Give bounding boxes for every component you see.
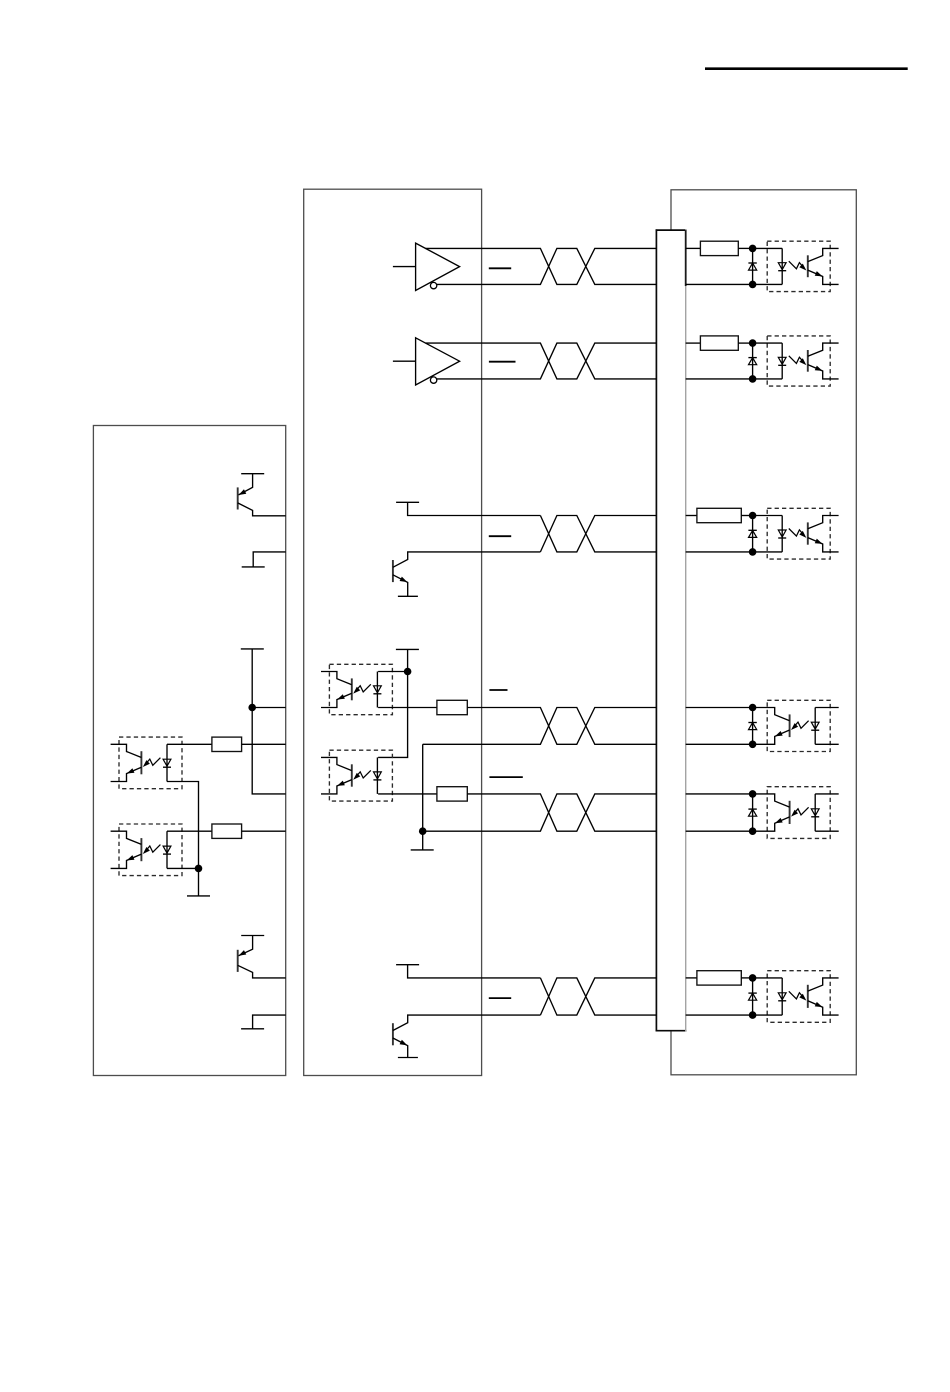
node left supply [248, 704, 256, 712]
signal name overbar row 6 [489, 997, 511, 999]
left external-device box [93, 426, 285, 1076]
optocoupler PC5 (right) [753, 787, 839, 839]
node left return [195, 865, 203, 873]
resistor R8 [212, 824, 242, 838]
transistor Q3 base line [392, 560, 394, 582]
transistor Q3 collector wire [393, 552, 541, 567]
wire row 1 - line (bar to node) [686, 283, 753, 285]
left row-3 return wire [253, 552, 286, 567]
middle ground bar [411, 849, 434, 851]
row 3 wire from terminal to + line [408, 502, 541, 515]
node middle supply [404, 668, 412, 676]
left supply terminal bar [241, 648, 264, 650]
clamp diode D4 [748, 708, 756, 745]
left Q1 emitter [237, 474, 252, 497]
wire row 5 - line (bar to node) [686, 830, 753, 832]
wire row 2 + line (bar to resistor) [686, 342, 701, 344]
optocoupler PC2 [753, 336, 839, 386]
driver U1 inverting output bubble [430, 282, 436, 288]
signal name overbar row 4 [489, 689, 507, 691]
node row 1 - [749, 281, 757, 289]
clamp diode D3 [748, 516, 756, 552]
twisted pair row 4 [423, 708, 657, 745]
middle controller box [304, 189, 482, 1075]
wire PC4 cathode to resistor [378, 707, 437, 709]
connector CN terminal bar [656, 229, 687, 1031]
signal name overbar row 2 [489, 361, 516, 363]
line driver U1 [416, 243, 460, 290]
wire node to ground [198, 868, 200, 896]
wire PC8 anode to resistor [167, 830, 212, 832]
resistor R6 [697, 971, 741, 985]
left row-3 terminal bar [242, 566, 265, 568]
node row 6 - [749, 1011, 757, 1019]
node row 1 + [749, 245, 757, 253]
wire PC8 cathode to node [167, 867, 199, 869]
transistor Q1 base line [237, 487, 239, 509]
resistor R4 (middle) [437, 700, 467, 714]
node row 3 + [749, 512, 757, 520]
wire supply to node [407, 649, 409, 671]
row 3 pull-up terminal bar [396, 501, 419, 503]
wire row 4 - line (bar to node) [686, 743, 753, 745]
wire PC4 anode to supply node [378, 671, 408, 673]
node row 6 + [749, 974, 757, 982]
resistor R7 [212, 737, 242, 751]
wire row 1 + line (bar to resistor) [686, 247, 701, 249]
driver U2 inverting output bubble [430, 377, 436, 383]
left Q1 supply terminal bar [241, 473, 264, 475]
twisted pair row 1 [425, 248, 656, 284]
left row-6 terminal bar [241, 1028, 264, 1030]
node row 5 + [749, 790, 757, 798]
row 6 wire from terminal to + line [408, 965, 541, 978]
transistor Q3 emitter [393, 575, 409, 597]
wire resistor to node row 1 [738, 247, 752, 249]
twisted pair row 5 [423, 794, 657, 831]
left Q2 emitter [237, 936, 252, 958]
right interface box [671, 190, 856, 1075]
transistor Q6 collector wire [393, 1015, 541, 1030]
node middle return [419, 827, 427, 835]
wire resistor R7 to box edge [242, 743, 286, 745]
resistor R3 [697, 508, 741, 522]
driver U2 input wire [393, 360, 416, 362]
header rule line [705, 67, 908, 70]
wire PC7 anode to resistor [167, 743, 212, 745]
optocoupler PC4 (right) [753, 700, 839, 751]
wire row 5 + line (bar to node) [686, 793, 753, 795]
wire row 6 - line (bar to node) [686, 1014, 753, 1016]
transistor Q6 emitter [393, 1038, 409, 1058]
left supply rail wire [252, 649, 286, 794]
optocoupler PC4 (middle) [321, 664, 392, 714]
row 6 emitter terminal bar [398, 1057, 418, 1059]
middle supply terminal bar [396, 648, 419, 650]
optocoupler PC7 (left) [111, 737, 182, 789]
wire PC5 cathode to resistor [378, 793, 437, 795]
node row 4 + [749, 704, 757, 712]
clamp diode D5 [748, 794, 756, 831]
resistor R5 (middle) [437, 787, 467, 801]
left ground bar [187, 895, 210, 897]
optocoupler PC6 [753, 971, 839, 1023]
left row-6 return wire [253, 1015, 286, 1029]
node row 2 - [749, 375, 757, 383]
wire row 4 + line (bar to node) [686, 707, 753, 709]
resistor R2 [700, 336, 738, 350]
wire row 3 - line (bar to node) [686, 551, 753, 553]
node row 4 - [749, 741, 757, 749]
row 6 pull-up terminal bar [396, 964, 419, 966]
node row 3 - [749, 548, 757, 556]
wire node down to PC5 anode [378, 672, 408, 758]
left Q1 collector wire [238, 503, 286, 516]
twisted pair row 2 [425, 343, 656, 379]
wire row 6 + line (bar to resistor) [686, 977, 697, 979]
optocoupler PC8 (left) [111, 824, 182, 876]
clamp diode D2 [748, 343, 756, 379]
transistor Q2 base line [237, 950, 239, 972]
left Q2 supply terminal bar [241, 935, 264, 937]
middle return bus wire [422, 744, 424, 831]
optocoupler PC5 (middle) [321, 750, 392, 801]
node row 2 + [749, 339, 757, 347]
wire PC7 cathode down [167, 782, 199, 869]
wire row 2 - line (bar to node) [686, 378, 753, 380]
transistor Q6 base line [392, 1023, 394, 1045]
wire return to ground [422, 831, 424, 850]
resistor R1 [700, 241, 738, 255]
wire resistor to node row 2 [738, 342, 752, 344]
wire supply node to box edge [252, 707, 286, 709]
left Q2 collector wire [238, 965, 286, 978]
signal name overbar row 5 [489, 776, 522, 778]
optocoupler PC3 [753, 508, 839, 559]
signal name overbar row 3 [489, 535, 511, 537]
twisted pair row 3 [540, 516, 656, 552]
line driver U2 [416, 338, 460, 385]
clamp diode D6 [748, 978, 756, 1015]
wire resistor to node row 6 [741, 977, 752, 979]
wire resistor R8 to box edge [242, 830, 286, 832]
wire row 3 + line (bar to resistor) [686, 515, 697, 517]
node row 5 - [749, 827, 757, 835]
row 3 emitter terminal bar [398, 595, 418, 597]
twisted pair row 6 [540, 978, 656, 1015]
signal name overbar row 1 [489, 267, 511, 269]
driver U1 input wire [393, 266, 416, 268]
optocoupler PC1 [753, 241, 839, 291]
clamp diode D1 [748, 248, 756, 284]
wire resistor to node row 3 [741, 515, 752, 517]
